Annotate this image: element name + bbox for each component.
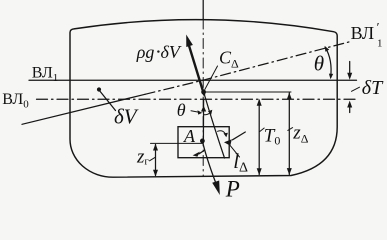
- svg-text:δV: δV: [114, 105, 139, 129]
- svg-text:δV: δV: [161, 42, 182, 62]
- svg-text:θ: θ: [177, 100, 186, 120]
- svg-text:θ: θ: [314, 51, 324, 75]
- svg-text:1: 1: [377, 37, 383, 49]
- inclined waterline VL1' solid part: [22, 94, 145, 124]
- l_delta left outside arrow tail: [199, 150, 204, 153]
- point A: [200, 139, 205, 144]
- l_delta right outside arrow tail: [233, 132, 246, 140]
- T0 dimension line: [258, 101, 260, 175]
- buoyancy force line through C_delta: [189, 44, 205, 95]
- load rectangle at A: [178, 127, 229, 158]
- z_delta up arrowhead: [287, 93, 292, 100]
- z_delta down arrowhead: [287, 168, 292, 175]
- dT dimension lower arrow line: [349, 107, 351, 113]
- theta-at-A arc arrowhead: [208, 110, 212, 115]
- hull outline: [70, 20, 337, 178]
- l_delta arc mark: [218, 131, 226, 136]
- dT down arrowhead: [347, 73, 352, 80]
- theta-at-A arc: [204, 111, 212, 115]
- dT up arrowhead: [347, 101, 352, 108]
- svg-text:ВЛ: ВЛ: [351, 23, 375, 43]
- P arrowhead: [212, 181, 220, 196]
- dT leader tick: [352, 87, 360, 91]
- theta arc (right, between VL1' and VL1): [325, 47, 331, 77]
- theta-at-A leader arrowhead: [198, 110, 203, 114]
- theta-at-A leader: [191, 111, 200, 113]
- z_g down arrowhead: [153, 170, 158, 177]
- svg-text:ρg: ρg: [136, 42, 155, 62]
- centerline (ship axis): [202, 0, 204, 19]
- z_g up arrowhead: [153, 144, 158, 151]
- waterline VL1: [29, 79, 357, 81]
- svg-text:A: A: [183, 126, 196, 146]
- vertical arrow from A up: [202, 100, 204, 142]
- z_g horizontal line from A: [151, 142, 204, 144]
- l_delta label leader: [230, 146, 239, 157]
- z_delta dimension line: [288, 93, 290, 175]
- rho g dV arrowhead: [186, 35, 193, 48]
- theta arc bottom arrowhead: [329, 74, 333, 80]
- z_delta leader tick: [288, 128, 293, 131]
- T0 leader tick: [260, 128, 264, 132]
- svg-text:δT: δT: [362, 77, 384, 99]
- P force line: [202, 141, 215, 183]
- l_delta arc arrowhead: [224, 133, 228, 138]
- T0 down arrowhead: [257, 168, 262, 175]
- dT dimension upper arrow line: [349, 62, 351, 74]
- T0 up arrowhead: [257, 99, 262, 106]
- vertical-from-A arrowhead: [201, 106, 206, 112]
- C_delta leader: [205, 66, 218, 90]
- dV leader line: [99, 90, 116, 111]
- dV leader dot: [97, 87, 101, 91]
- z_g leader tick: [150, 157, 156, 161]
- svg-text:′: ′: [377, 20, 380, 35]
- svg-text:P: P: [225, 177, 240, 198]
- inclined waterline VL1' dash-dot part: [145, 41, 351, 94]
- z_delta horizontal line from C_delta: [204, 91, 291, 93]
- z_g dimension line: [155, 145, 157, 176]
- theta arc top arrowhead: [325, 46, 330, 52]
- C_delta point: [201, 90, 206, 95]
- l_delta right arrowhead: [224, 139, 232, 146]
- l_delta left arrowhead: [193, 152, 200, 157]
- waterline VL0 (dash-dot): [37, 98, 358, 100]
